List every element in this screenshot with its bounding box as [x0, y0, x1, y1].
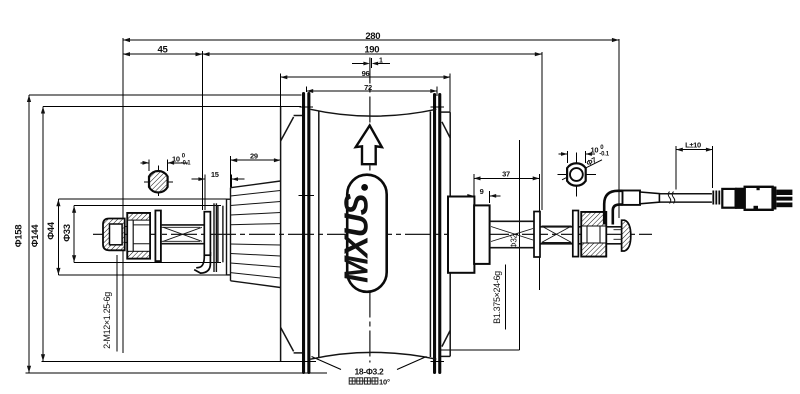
svg-text:-0.1: -0.1 — [599, 152, 609, 158]
svg-text:96: 96 — [362, 69, 370, 78]
svg-text:72: 72 — [364, 83, 372, 92]
svg-text:Φ44: Φ44 — [46, 221, 57, 239]
svg-text:29: 29 — [250, 152, 258, 161]
svg-text:190: 190 — [364, 45, 379, 56]
svg-text:Φ144: Φ144 — [30, 224, 41, 247]
svg-text:10°: 10° — [379, 378, 390, 387]
svg-text:L±10: L±10 — [685, 141, 701, 150]
svg-text:37: 37 — [502, 169, 510, 178]
svg-text:2-M12×1.25-6g: 2-M12×1.25-6g — [102, 292, 112, 349]
svg-text:18-Φ3.2: 18-Φ3.2 — [355, 367, 385, 377]
svg-text:MXUS: MXUS — [338, 194, 375, 283]
svg-text:10: 10 — [591, 146, 599, 155]
svg-text:Φ33: Φ33 — [62, 224, 73, 241]
svg-text:B1.375×24-6g: B1.375×24-6g — [492, 271, 502, 324]
svg-text:280: 280 — [365, 31, 380, 42]
svg-text:-0.1: -0.1 — [181, 160, 191, 166]
svg-text:15: 15 — [211, 170, 219, 179]
svg-text:1: 1 — [379, 57, 383, 64]
svg-text:45: 45 — [158, 45, 169, 56]
svg-text:Φ158: Φ158 — [13, 225, 24, 247]
svg-text:9: 9 — [480, 187, 484, 196]
svg-text:10: 10 — [172, 154, 180, 163]
